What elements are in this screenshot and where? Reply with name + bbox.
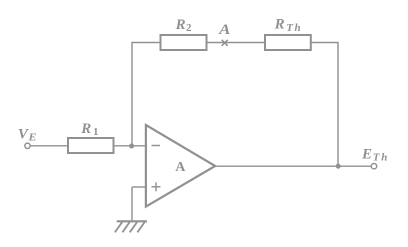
svg-text:R: R <box>175 17 186 33</box>
wire RTh to corner <box>310 42 339 44</box>
op-amp minus input symbol <box>152 145 161 147</box>
wire top left segment <box>131 42 160 44</box>
svg-text:E: E <box>361 147 372 163</box>
wire R1 to op-amp <box>114 145 148 147</box>
svg-text:A: A <box>218 22 230 38</box>
wire plus input horizontal <box>132 186 147 188</box>
wire right vertical down <box>337 43 339 167</box>
ground <box>115 221 147 232</box>
resistor R2 <box>161 35 207 50</box>
wire feedback left vertical <box>131 43 133 146</box>
svg-text:h: h <box>295 22 301 34</box>
wire plus input down to ground <box>131 187 133 221</box>
svg-text:h: h <box>381 151 387 163</box>
op-amp U1 triangle <box>146 125 215 207</box>
wire R2 to RTh <box>208 42 265 44</box>
svg-text:1: 1 <box>93 126 99 138</box>
svg-text:R: R <box>274 17 285 33</box>
resistor RTh <box>265 35 311 50</box>
svg-text:A: A <box>175 160 186 175</box>
wire VE to R1 <box>30 145 68 147</box>
wire op-amp output <box>216 165 372 167</box>
node A cross marker <box>222 40 228 46</box>
svg-text:R: R <box>80 121 91 137</box>
svg-text:T: T <box>286 22 294 34</box>
svg-text:T: T <box>373 151 381 163</box>
terminal ETh <box>371 164 376 169</box>
svg-text:E: E <box>27 132 36 144</box>
junction output node <box>336 164 341 169</box>
op-amp plus input symbol <box>152 182 161 191</box>
terminal VE <box>25 143 30 148</box>
junction input node <box>129 144 134 149</box>
resistor R1 <box>68 138 114 153</box>
svg-text:2: 2 <box>186 22 192 34</box>
